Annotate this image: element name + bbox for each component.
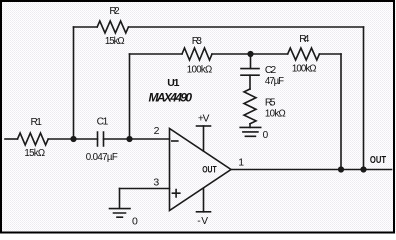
capacitor C1	[98, 132, 104, 146]
resistor R3	[182, 48, 212, 60]
svg-text:10kΩ: 10kΩ	[265, 108, 286, 119]
ground R5	[240, 127, 261, 136]
wire R1 to C1	[48, 138, 97, 140]
wire R5 to ground	[249, 124, 251, 128]
resistor R4	[288, 48, 320, 60]
wire R2 right	[129, 26, 364, 28]
wire +V stub	[203, 126, 205, 151]
wire C1 to pin 2	[104, 138, 170, 140]
svg-text:C1: C1	[97, 116, 109, 127]
svg-text:+V: +V	[198, 114, 210, 125]
svg-text:R1: R1	[31, 117, 43, 128]
op-amp minus sign	[172, 140, 178, 142]
svg-text:2: 2	[154, 125, 160, 137]
wire output	[231, 169, 392, 171]
wire node C to R4	[251, 53, 288, 55]
svg-text:R5: R5	[265, 97, 276, 108]
svg-text:U1: U1	[167, 77, 179, 89]
svg-text:3: 3	[153, 176, 159, 188]
wire C2 to R5	[249, 75, 251, 89]
svg-text:R4: R4	[299, 34, 310, 45]
op-amp plus sign	[172, 190, 179, 197]
wire R4 right	[319, 53, 341, 55]
wire R2 left	[74, 26, 98, 28]
wire node A riser to R2	[73, 27, 75, 139]
svg-text:100kΩ: 100kΩ	[292, 63, 317, 74]
svg-text:OUT: OUT	[202, 165, 216, 175]
svg-text:MAX4490: MAX4490	[149, 90, 193, 104]
wire R3 left	[130, 53, 183, 55]
svg-text:R2: R2	[109, 6, 120, 17]
svg-text:R3: R3	[192, 36, 202, 47]
svg-text:15kΩ: 15kΩ	[105, 36, 125, 47]
node C junction	[247, 51, 253, 57]
op-amp U1	[170, 129, 232, 211]
svg-text:1: 1	[238, 157, 244, 169]
wire input segment	[5, 138, 18, 140]
svg-text:47µF: 47µF	[265, 76, 284, 87]
svg-text:-V: -V	[197, 216, 208, 227]
svg-text:0.047µF: 0.047µF	[86, 152, 118, 163]
-V rail bar	[197, 211, 211, 213]
wire R3 to node C	[212, 53, 251, 55]
wire -V stub	[203, 189, 205, 212]
wire node B riser to R3	[129, 54, 131, 139]
node E junction	[360, 166, 366, 172]
node A junction	[70, 136, 76, 142]
+V rail bar	[197, 125, 211, 127]
resistor R1	[18, 133, 49, 145]
resistor R2	[97, 21, 128, 33]
wire C2 top stub	[250, 54, 252, 68]
wire R2 drop to output	[363, 27, 365, 170]
wire pin 3 drop to ground	[119, 189, 121, 209]
resistor R5	[244, 89, 256, 124]
ground pin 3	[110, 209, 131, 218]
node B junction	[126, 136, 132, 142]
wire pin 3	[120, 188, 170, 190]
svg-text:OUT: OUT	[370, 154, 386, 165]
node D junction	[338, 166, 344, 172]
svg-text:C2: C2	[265, 65, 277, 76]
svg-text:0: 0	[263, 130, 269, 141]
svg-text:15kΩ: 15kΩ	[24, 148, 45, 159]
svg-text:0: 0	[132, 215, 138, 227]
capacitor C2	[241, 69, 259, 76]
svg-text:100kΩ: 100kΩ	[187, 64, 213, 75]
wire R4 drop to output	[340, 54, 342, 170]
